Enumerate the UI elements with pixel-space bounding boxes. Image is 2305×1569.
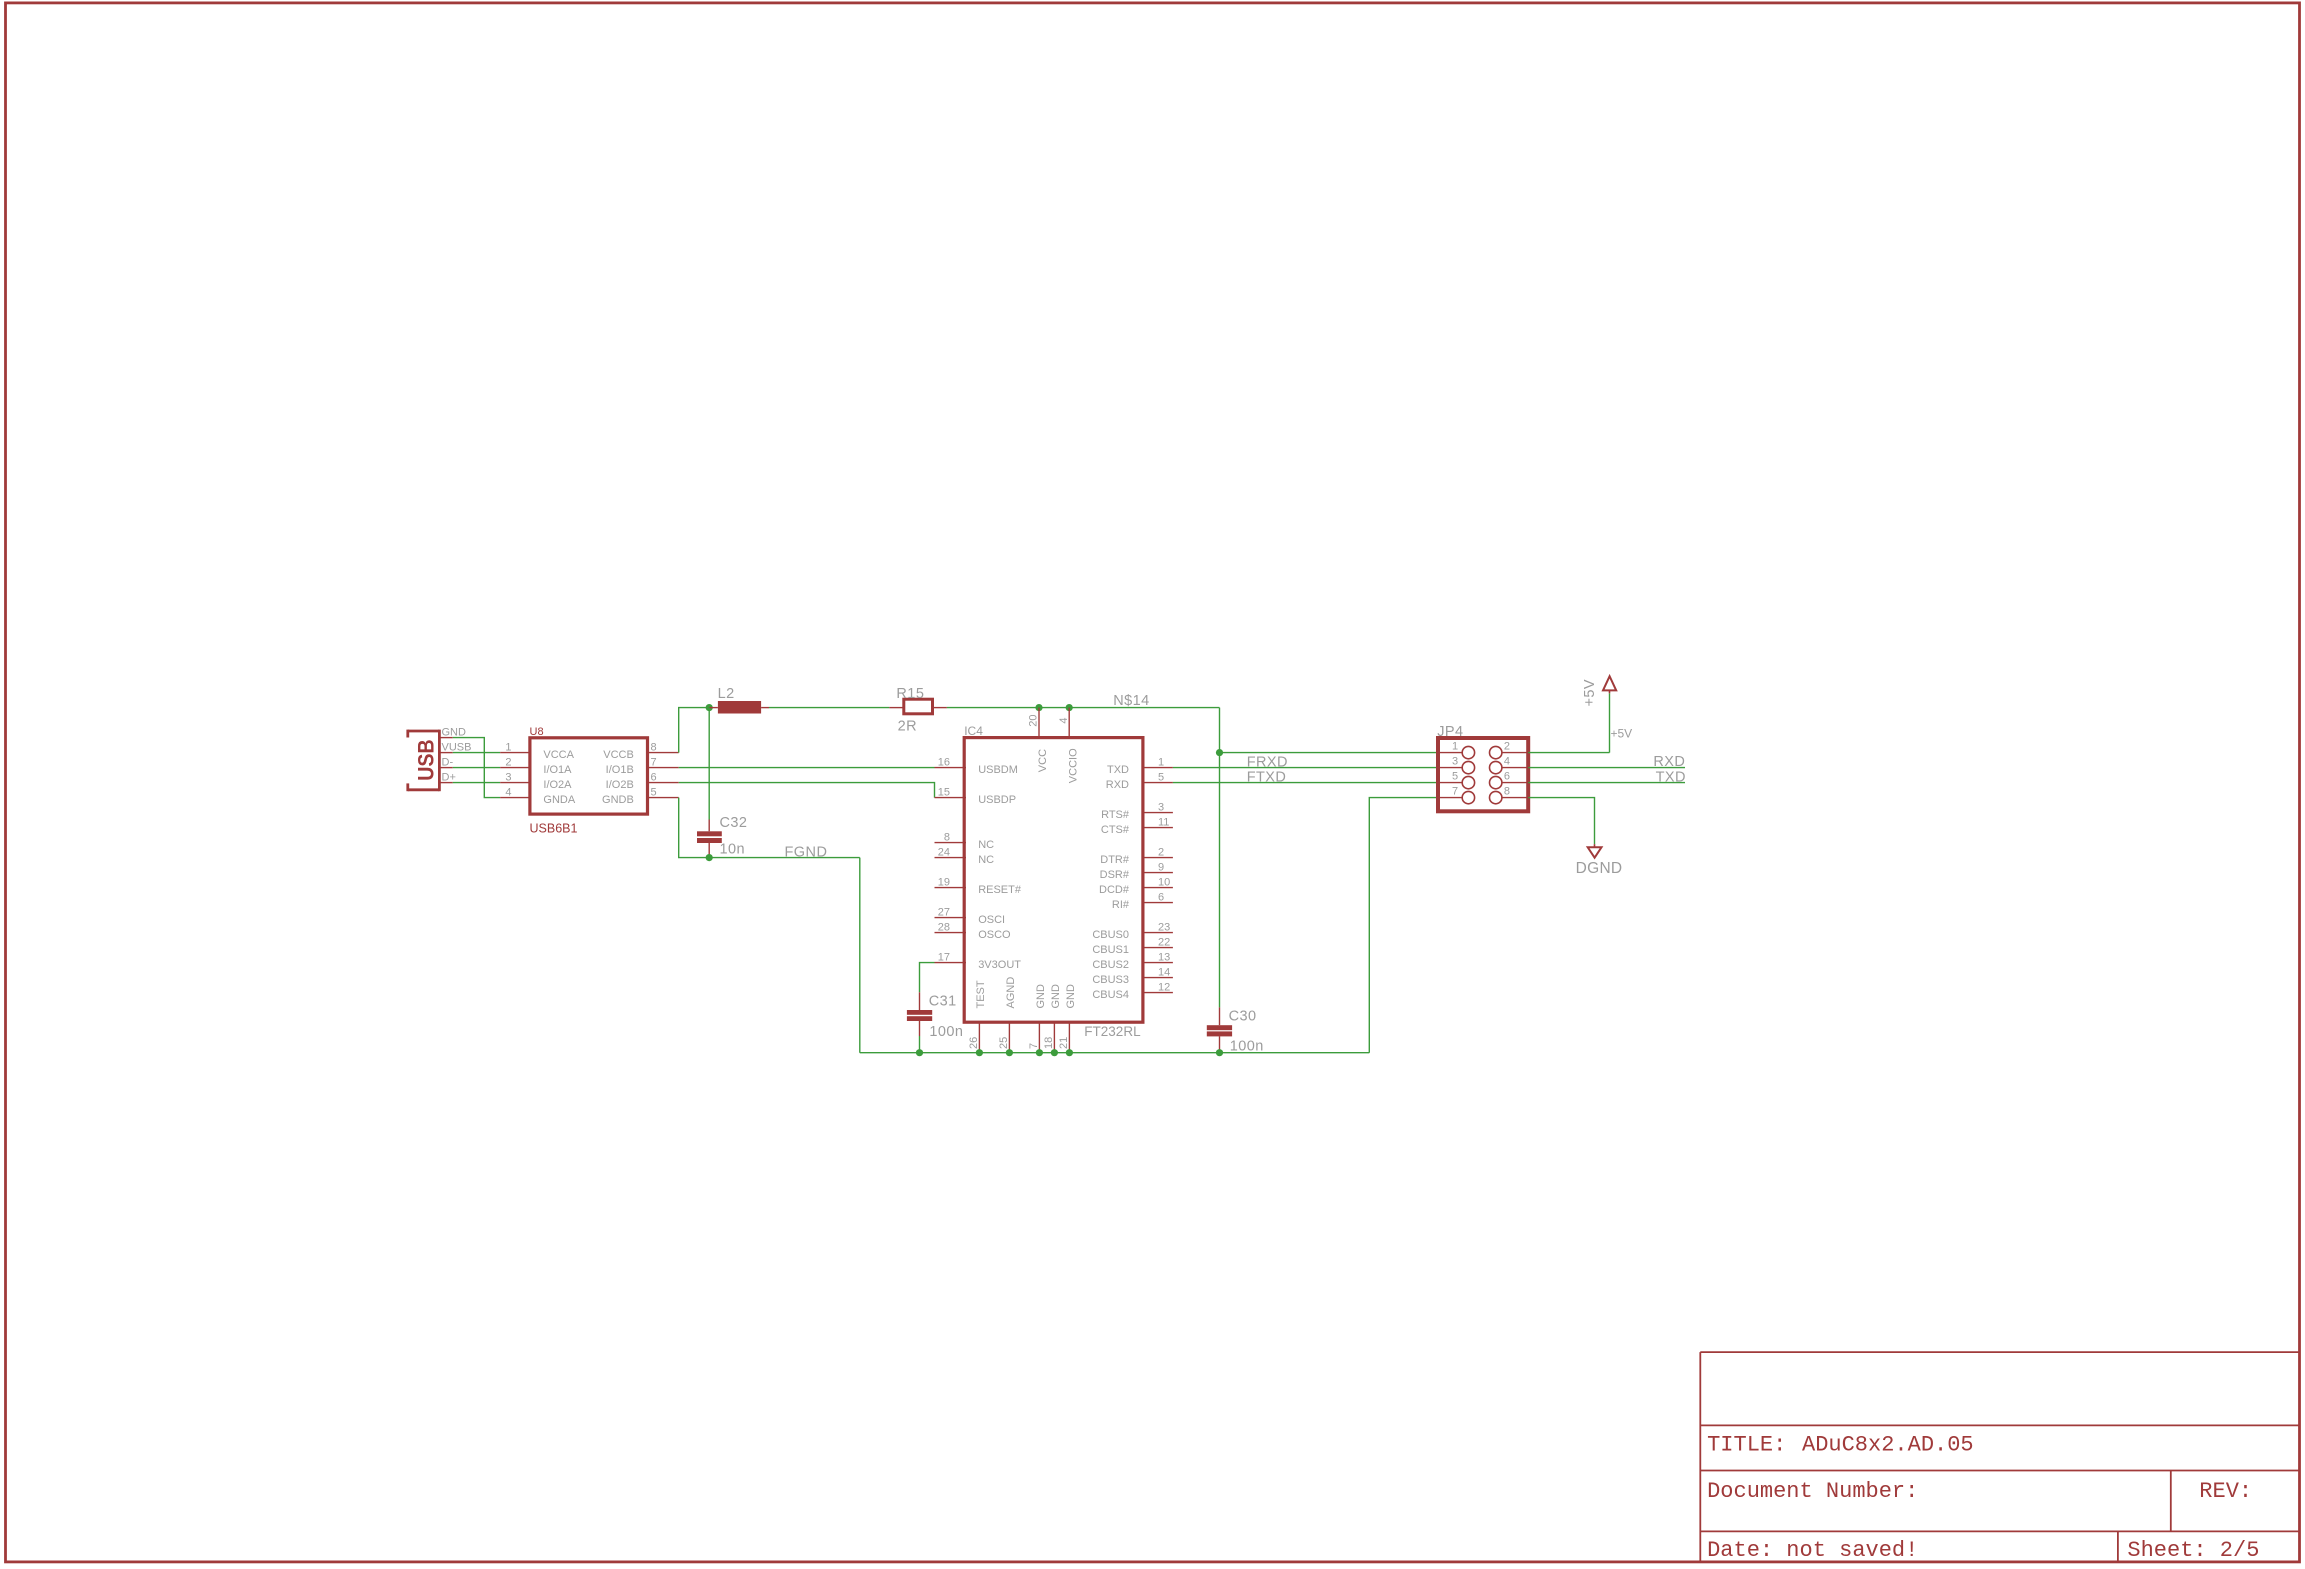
wire net FGND [709,844,860,1052]
wire VUSB to VCCA [453,752,500,754]
svg-text:2R: 2R [898,719,917,735]
IC4 pin 14 CBUS3 [1092,966,1173,986]
junction rail pin 25 [1006,1049,1013,1056]
IC4 pin 3 RTS# [1101,801,1173,821]
svg-text:CTS#: CTS# [1101,824,1130,836]
svg-text:2: 2 [1504,740,1510,752]
U8 pin 4 GNDA [500,786,576,806]
svg-text:Date: not saved!: Date: not saved! [1707,1538,1918,1563]
svg-text:U8: U8 [530,726,544,738]
svg-text:GNDA: GNDA [543,794,575,806]
U8 pin 8 VCCB [603,741,678,761]
svg-text:+5V: +5V [1611,727,1633,741]
svg-text:VCC: VCC [1037,749,1049,772]
svg-text:OSCO: OSCO [978,929,1011,941]
ic IC4 FT232RL body [964,724,1143,1039]
svg-text:8: 8 [1504,785,1510,797]
svg-text:4: 4 [1058,717,1070,723]
IC4 pin 17 3V3OUT [935,951,1022,971]
svg-text:DCD#: DCD# [1099,884,1130,896]
svg-text:4: 4 [505,786,511,798]
junction C30 rail [1216,1049,1223,1056]
IC4 pin 12 CBUS4 [1092,981,1173,1001]
JP4 pin 2 [1490,740,1529,758]
svg-text:USB6B1: USB6B1 [530,821,578,835]
wire VCCB up to L2 node [679,708,710,753]
IC4 pin 6 RI# [1112,891,1173,911]
IC4 pin 21 GND [1058,984,1077,1053]
svg-text:TITLE:: TITLE: [1707,1433,1786,1458]
svg-text:2: 2 [1158,846,1164,858]
svg-text:26: 26 [968,1037,980,1049]
svg-text:Sheet: 2/5: Sheet: 2/5 [2127,1538,2259,1563]
USB pin D+ [439,772,455,784]
svg-text:7: 7 [1028,1043,1040,1049]
IC4 pin 4 VCCIO [1058,708,1080,784]
U8 pin 6 I/O2B [606,771,679,791]
JP4 pin 3 [1438,755,1475,773]
wire net N$14 R15 to VCC/VCCIO and down to C30 [947,693,1220,1007]
svg-text:I/O1B: I/O1B [606,764,634,776]
IC4 pin 20 VCC [1028,708,1050,773]
svg-text:GND: GND [1035,984,1047,1009]
svg-text:21: 21 [1058,1037,1070,1049]
svg-text:VUSB: VUSB [442,742,472,754]
svg-text:10n: 10n [720,842,746,858]
svg-text:14: 14 [1158,966,1170,978]
IC4 pin 25 AGND [998,977,1017,1053]
svg-text:25: 25 [998,1037,1010,1049]
svg-text:CBUS3: CBUS3 [1092,974,1129,986]
svg-text:1: 1 [1158,756,1164,768]
U8 pin 1 VCCA [500,741,574,761]
JP4 pin 8 [1490,785,1529,803]
power symbol +5V [1582,676,1616,706]
U8 pin 3 I/O2A [500,771,572,791]
svg-text:CBUS1: CBUS1 [1092,944,1129,956]
svg-text:12: 12 [1158,981,1170,993]
wire JP4 pin2 to +5V [1528,693,1632,752]
svg-text:17: 17 [938,951,950,963]
IC4 pin 7 GND [1028,984,1047,1053]
wire +5V junction to JP4 pin1 [1220,752,1439,754]
svg-text:GND: GND [1065,984,1077,1009]
svg-text:R15: R15 [896,686,924,702]
svg-text:GND: GND [442,727,467,739]
svg-text:I/O1A: I/O1A [543,764,572,776]
svg-text:IC4: IC4 [964,724,983,738]
svg-text:1: 1 [1452,740,1458,752]
svg-text:C30: C30 [1229,1009,1257,1025]
IC4 pin 26 TEST [968,980,987,1053]
IC4 pin 27 OSCI [935,906,1006,926]
svg-text:18: 18 [1043,1037,1055,1049]
USB pin D- [439,757,453,769]
svg-text:NC: NC [978,839,994,851]
wire D+ to I/O2A [453,782,500,784]
junction rail pin 18 [1051,1049,1058,1056]
svg-text:6: 6 [1504,770,1510,782]
wire GNDB down to FGND rail [679,798,710,858]
IC4 pin 19 RESET# [935,876,1022,896]
JP4 pin 1 [1438,740,1475,758]
wire net FRXD [1173,754,1438,770]
svg-text:VCCIO: VCCIO [1067,748,1079,783]
U8 pin 7 I/O1B [606,756,679,776]
svg-text:CBUS0: CBUS0 [1092,929,1129,941]
IC4 pin 16 USBDM [935,756,1018,776]
svg-text:GNDB: GNDB [602,794,634,806]
IC4 pin 1 TXD [1107,756,1173,776]
svg-text:L2: L2 [718,686,735,702]
svg-text:NC: NC [978,854,994,866]
wire D- to I/O1A [453,767,500,769]
junction C31 rail [916,1049,923,1056]
junction rail pin 26 [976,1049,983,1056]
IC4 pin 13 CBUS2 [1092,951,1173,971]
USB pin GND [439,727,466,739]
IC4 pin 24 NC [935,846,995,866]
svg-text:DSR#: DSR# [1100,869,1130,881]
svg-text:AGND: AGND [1005,977,1017,1009]
IC4 pin 5 RXD [1106,771,1173,791]
svg-text:19: 19 [938,876,950,888]
ground symbol DGND [1576,844,1623,877]
svg-text:27: 27 [938,906,950,918]
svg-text:11: 11 [1158,816,1169,828]
junction rail pin 21 [1066,1049,1073,1056]
svg-text:9: 9 [1158,861,1164,873]
connector JP4 body [1437,724,1528,812]
svg-text:5: 5 [1452,770,1458,782]
svg-text:REV:: REV: [2199,1479,2252,1504]
svg-text:I/O2A: I/O2A [543,779,572,791]
svg-text:RI#: RI# [1112,899,1130,911]
svg-text:3: 3 [505,771,511,783]
connector USB (plug symbol) [408,730,440,792]
svg-text:15: 15 [938,786,950,798]
inductor L2 [709,686,769,713]
svg-text:VCCB: VCCB [603,749,634,761]
title block frame [1700,1352,2299,1562]
svg-text:JP4: JP4 [1437,724,1463,740]
capacitor C31 value 100n [907,992,964,1052]
resistor R15 value 2R [889,686,947,734]
wire net RXD [1528,754,1685,770]
svg-text:ADuC8x2.AD.05: ADuC8x2.AD.05 [1802,1433,1974,1458]
svg-text:10: 10 [1158,876,1170,888]
svg-text:6: 6 [1158,891,1164,903]
svg-text:24: 24 [938,846,950,858]
svg-text:D+: D+ [442,772,456,784]
IC4 pin 11 CTS# [1101,816,1173,836]
wire L2 to R15 [769,707,889,709]
U8 pin 5 GNDB [602,786,679,806]
ic U8 USB6B1 body [530,726,648,835]
IC4 pin 8 NC [935,831,995,851]
wire rail riser to JP4 pin7 [1369,798,1438,1053]
svg-text:CBUS2: CBUS2 [1092,959,1129,971]
svg-text:RESET#: RESET# [978,884,1022,896]
svg-text:FTXD: FTXD [1247,769,1287,785]
JP4 pin 6 [1490,770,1529,788]
capacitor C30 value 100n [1207,1007,1264,1054]
title block TITLE text [1707,1433,1974,1458]
junction VCC [1035,704,1042,711]
wire 3V3OUT to C31 [920,963,935,993]
svg-text:5: 5 [651,786,657,798]
JP4 pin 5 [1438,770,1475,788]
svg-text:8: 8 [944,831,950,843]
svg-text:28: 28 [938,921,950,933]
svg-text:FRXD: FRXD [1247,754,1288,770]
svg-text:7: 7 [651,756,657,768]
svg-text:100n: 100n [929,1024,963,1040]
svg-text:5: 5 [1158,771,1164,783]
svg-text:4: 4 [1504,755,1510,767]
svg-text:D-: D- [442,757,454,769]
svg-text:C31: C31 [929,994,957,1010]
node junction at L2 left [706,704,713,711]
svg-text:3: 3 [1158,801,1164,813]
USB pin VUSB [439,742,471,754]
wire net TXD [1528,769,1686,785]
svg-text:TXD: TXD [1107,764,1129,776]
svg-text:23: 23 [1158,921,1170,933]
svg-text:+5V: +5V [1582,679,1598,707]
svg-text:GND: GND [1050,984,1062,1009]
IC4 pin 2 DTR# [1100,846,1173,866]
svg-text:I/O2B: I/O2B [606,779,634,791]
svg-text:16: 16 [938,756,950,768]
IC4 pin 10 DCD# [1099,876,1173,896]
svg-text:Document Number:: Document Number: [1707,1479,1918,1504]
svg-text:RXD: RXD [1653,754,1685,770]
junction +5V branch [1216,749,1223,756]
svg-text:C32: C32 [720,815,748,831]
capacitor C32 value 10n [697,815,747,858]
wire I/O1B to USBDM [679,767,935,769]
IC4 pin 15 USBDP [935,786,1017,806]
svg-text:FGND: FGND [785,844,828,860]
svg-text:13: 13 [1158,951,1170,963]
JP4 pin 7 [1438,785,1475,803]
svg-text:N$14: N$14 [1113,693,1149,709]
svg-text:CBUS4: CBUS4 [1092,989,1129,1001]
svg-text:USBDP: USBDP [978,794,1016,806]
svg-text:VCCA: VCCA [543,749,574,761]
wire GND to GNDA [453,738,500,798]
IC4 pin 18 GND [1043,984,1062,1053]
svg-text:7: 7 [1452,785,1458,797]
svg-text:USBDM: USBDM [978,764,1018,776]
junction VCCIO [1066,704,1073,711]
svg-text:6: 6 [651,771,657,783]
svg-text:TEST: TEST [975,980,987,1008]
IC4 pin 9 DSR# [1100,861,1173,881]
svg-text:RXD: RXD [1106,779,1129,791]
IC4 pin 23 CBUS0 [1092,921,1173,941]
svg-text:TXD: TXD [1656,769,1686,785]
svg-text:DGND: DGND [1576,860,1623,877]
svg-text:FT232RL: FT232RL [1084,1024,1141,1039]
IC4 pin 22 CBUS1 [1092,936,1173,956]
IC4 pin 28 OSCO [935,921,1012,941]
svg-text:8: 8 [651,741,657,753]
svg-text:DTR#: DTR# [1100,854,1130,866]
junction rail pin 7 [1036,1049,1043,1056]
wire net FTXD [1173,769,1438,785]
junction C32/FGND [706,854,713,861]
svg-text:22: 22 [1158,936,1170,948]
wire JP4 pin8 to DGND [1528,798,1594,845]
svg-text:OSCI: OSCI [978,914,1005,926]
svg-text:RTS#: RTS# [1101,809,1130,821]
svg-text:20: 20 [1028,715,1040,727]
wire I/O2B to USBDP (jog) [679,783,935,798]
JP4 pin 4 [1490,755,1529,773]
svg-text:2: 2 [505,756,511,768]
svg-text:3V3OUT: 3V3OUT [978,959,1021,971]
wire L2 node down to C32 [708,708,710,820]
svg-text:3: 3 [1452,755,1458,767]
wire ground rail [860,1052,1370,1054]
svg-text:USB: USB [414,739,439,781]
U8 pin 2 I/O1A [500,756,572,776]
svg-text:1: 1 [505,741,511,753]
